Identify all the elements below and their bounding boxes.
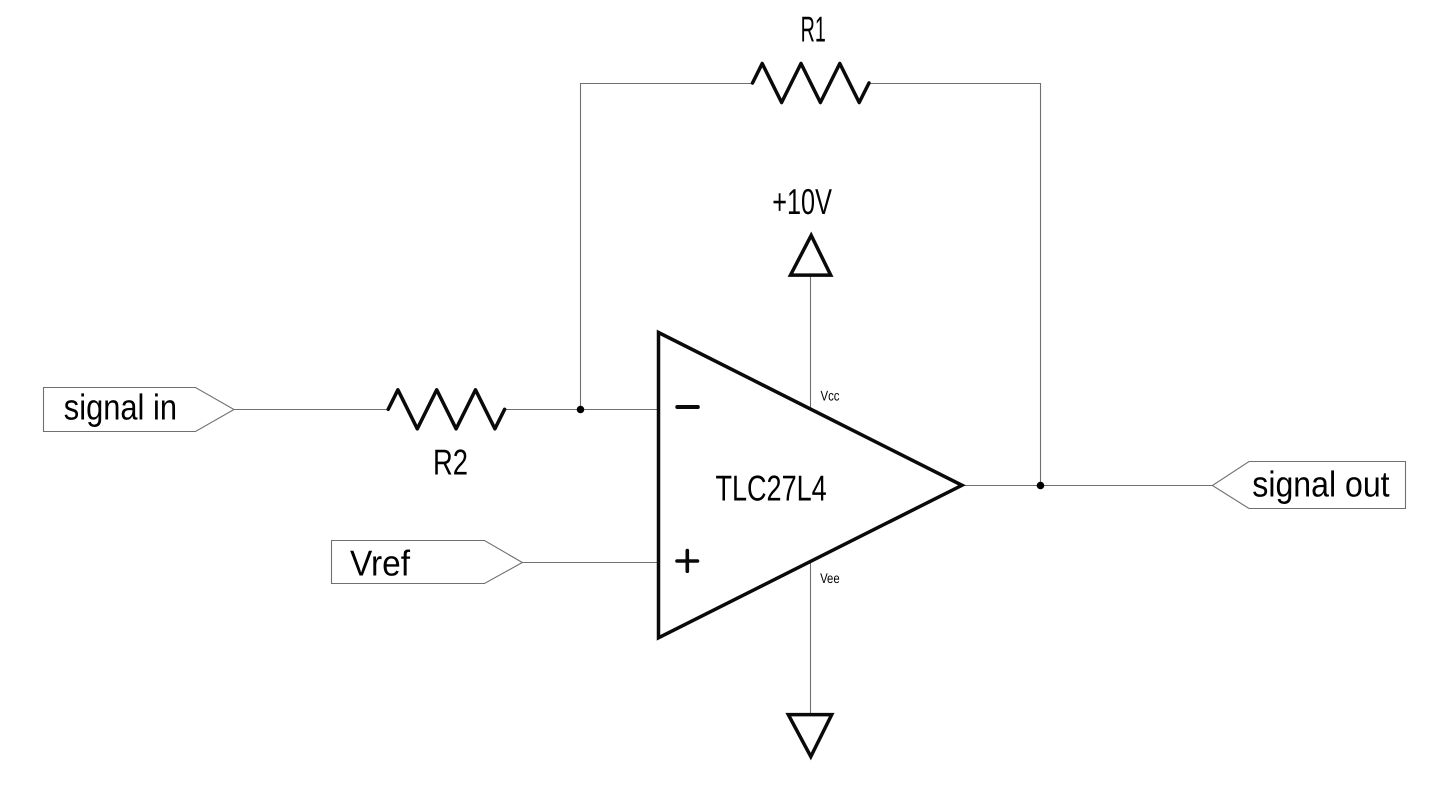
op-amp plus symbol [677, 551, 698, 572]
svg-text:R1: R1 [801, 8, 826, 49]
svg-text:signal in: signal in [64, 387, 177, 428]
power symbol +10V triangle [791, 235, 831, 275]
port flag Vref [332, 541, 523, 584]
svg-text:Vref: Vref [350, 542, 411, 583]
port flag signal out [1212, 462, 1405, 509]
svg-text:Vee: Vee [820, 570, 840, 586]
op-amp minus symbol [677, 405, 698, 409]
power symbol Vee down triangle [788, 715, 831, 757]
wire signal in to R2 [234, 409, 388, 411]
svg-text:R2: R2 [433, 441, 468, 482]
wire Vcc pin [810, 275, 812, 409]
resistor R1 [753, 64, 870, 103]
wire from inverting-node up to R1 left [581, 84, 753, 410]
svg-text:TLC27L4: TLC27L4 [716, 468, 827, 509]
junction node at inverting input [577, 406, 585, 414]
svg-text:+10V: +10V [772, 181, 832, 222]
svg-text:Vcc: Vcc [821, 387, 840, 403]
port flag signal in [44, 388, 235, 432]
wire Vee pin [810, 562, 812, 715]
wire Vref to op-amp non-inverting input [522, 562, 658, 564]
wire op-amp output to signal out [962, 485, 1212, 487]
junction node at output [1037, 482, 1045, 490]
wire from R1 right down to output node [869, 84, 1041, 486]
resistor R2 [388, 390, 504, 429]
svg-text:signal out: signal out [1252, 464, 1389, 505]
wire R2 to op-amp inverting input [505, 409, 659, 411]
op-amp U1 triangle [659, 333, 963, 638]
